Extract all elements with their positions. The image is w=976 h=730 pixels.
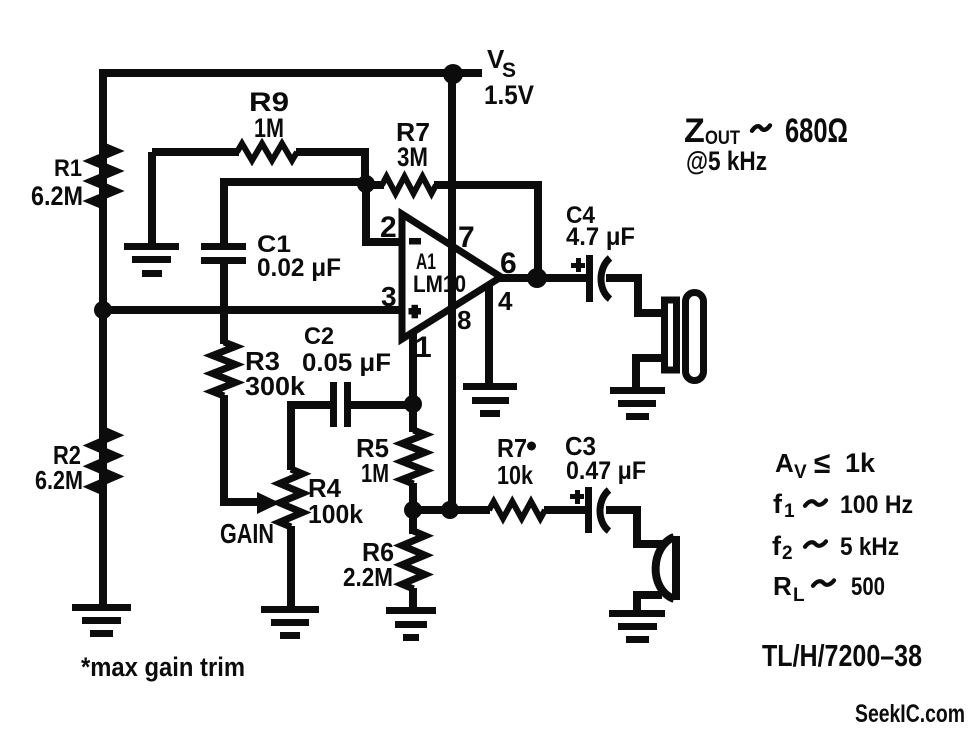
svg-text:@5 kHz: @5 kHz xyxy=(686,146,767,176)
svg-text:6.2M: 6.2M xyxy=(31,181,83,211)
svg-text:L: L xyxy=(793,585,805,606)
op-amp plus sign xyxy=(409,305,422,319)
node VS junction xyxy=(443,64,463,84)
node output junction xyxy=(527,268,547,288)
wire C2 left xyxy=(291,401,332,409)
wire left rail xyxy=(99,69,107,606)
resistor R7star xyxy=(489,502,545,519)
wire C2 right xyxy=(351,401,413,409)
C4 plus sign xyxy=(571,258,585,272)
node pin3 junction xyxy=(94,301,112,319)
svg-text:100 Hz: 100 Hz xyxy=(840,491,913,519)
wire R4 bottom xyxy=(287,526,295,608)
svg-text:2.2M: 2.2M xyxy=(343,562,393,592)
ground G1 xyxy=(72,604,131,637)
node R5R6 junction xyxy=(404,501,422,519)
svg-text:0.02 μF: 0.02 μF xyxy=(257,254,341,282)
wire pin3 xyxy=(103,306,403,314)
wire R7star right xyxy=(544,506,587,514)
svg-text:C2: C2 xyxy=(304,323,334,350)
capacitor C2 xyxy=(330,382,351,427)
ground G5 xyxy=(386,607,436,641)
svg-text:1M: 1M xyxy=(361,458,389,488)
resistor R2 xyxy=(92,430,116,492)
potentiometer R4 xyxy=(280,469,303,527)
svg-text:4.7 μF: 4.7 μF xyxy=(566,223,635,251)
wire C2 bend xyxy=(287,401,295,470)
wire C3 to speaker xyxy=(606,510,664,544)
speaker LS2 xyxy=(656,536,676,600)
svg-text:0.47 μF: 0.47 μF xyxy=(566,457,646,485)
svg-text:0.05 μF: 0.05 μF xyxy=(302,349,391,377)
svg-text:SeekIC.com: SeekIC.com xyxy=(855,700,965,728)
wire to R7star xyxy=(413,506,490,514)
svg-text:1.5V: 1.5V xyxy=(484,80,534,110)
label RL spec xyxy=(773,571,885,606)
svg-text:5 kHz: 5 kHz xyxy=(840,533,899,561)
node pin8 junction xyxy=(441,501,459,519)
wire R5 top xyxy=(409,404,417,432)
op-amp A1 LM10 xyxy=(402,214,501,339)
svg-text:≤: ≤ xyxy=(814,447,830,480)
speaker LS1 xyxy=(665,293,704,381)
wire R5 R6 link xyxy=(409,483,417,534)
ground G3 xyxy=(463,383,517,417)
svg-text:f: f xyxy=(772,531,782,561)
wire pin1 xyxy=(409,333,417,408)
svg-text:3: 3 xyxy=(381,281,397,312)
svg-text:680Ω: 680Ω xyxy=(785,112,848,150)
wire output xyxy=(499,274,587,282)
svg-text:1: 1 xyxy=(784,501,795,522)
wire C4 to speaker xyxy=(606,278,665,313)
wire pin7-pin8 vertical xyxy=(448,73,456,509)
capacitor C3 plate xyxy=(585,487,592,533)
op-amp minus sign xyxy=(409,238,421,245)
capacitor C4 plate xyxy=(586,255,593,302)
svg-text:1k: 1k xyxy=(845,448,876,478)
wire to C1 top xyxy=(224,182,366,246)
svg-text:*max gain trim: *max gain trim xyxy=(81,652,245,682)
svg-text:300k: 300k xyxy=(245,371,306,401)
svg-text:f: f xyxy=(773,489,783,519)
node feedback junction xyxy=(357,175,375,193)
svg-text:2: 2 xyxy=(782,543,793,564)
wire pin2 stub xyxy=(366,184,403,242)
svg-text:500: 500 xyxy=(851,573,885,601)
ground G6 xyxy=(609,610,665,643)
C3 plus sign xyxy=(570,490,584,504)
wire C1 bottom xyxy=(220,262,228,344)
wire R9 ground stem xyxy=(148,152,156,246)
label R7star asterisk xyxy=(527,442,536,451)
svg-text:A: A xyxy=(775,448,794,478)
wire speaker1 bottom xyxy=(636,358,664,387)
resistor R3 xyxy=(213,342,236,396)
wire pin4 xyxy=(485,283,493,388)
resistor R7 xyxy=(382,177,436,194)
svg-text:100k: 100k xyxy=(308,499,364,529)
svg-text:Z: Z xyxy=(684,112,705,150)
capacitor C1 xyxy=(201,243,246,264)
label Av spec xyxy=(775,447,876,483)
svg-text:LM10: LM10 xyxy=(413,271,466,298)
node C2 junction xyxy=(404,395,422,413)
svg-text:GAIN: GAIN xyxy=(220,518,274,549)
ground G4 xyxy=(261,606,319,639)
svg-text:R: R xyxy=(773,571,792,601)
wire R9 left xyxy=(152,148,239,156)
svg-text:R1: R1 xyxy=(54,155,82,182)
wire R6 bottom xyxy=(409,588,417,610)
svg-text:4: 4 xyxy=(498,286,513,316)
wire R9 right xyxy=(296,152,365,184)
svg-text:1: 1 xyxy=(415,331,432,364)
wire R7 left xyxy=(366,181,384,189)
svg-text:10k: 10k xyxy=(497,460,533,490)
svg-text:7: 7 xyxy=(458,221,475,254)
resistor R6 xyxy=(402,531,425,589)
svg-text:2: 2 xyxy=(380,211,397,244)
svg-text:1M: 1M xyxy=(254,113,284,143)
wire speaker2 bottom xyxy=(637,595,662,614)
wire R3 bottom xyxy=(224,395,264,502)
svg-text:V: V xyxy=(794,462,807,483)
svg-text:3M: 3M xyxy=(397,142,428,172)
label f1 spec xyxy=(773,489,913,522)
ground G2 xyxy=(124,243,179,277)
svg-text:R7: R7 xyxy=(497,433,527,463)
resistor R5 xyxy=(402,430,425,484)
svg-text:6.2M: 6.2M xyxy=(35,465,83,495)
wire R7 right xyxy=(434,185,538,276)
svg-text:TL/H/7200–38: TL/H/7200–38 xyxy=(762,638,922,673)
capacitor C3 curved plate xyxy=(600,490,609,531)
resistor R9 xyxy=(237,144,297,161)
svg-text:8: 8 xyxy=(457,305,471,335)
label f2 spec xyxy=(772,531,899,564)
gain trim arrow xyxy=(257,492,280,514)
label Zout tilde xyxy=(752,125,770,130)
ground G7 xyxy=(610,387,665,420)
capacitor C4 curved plate xyxy=(601,258,610,299)
resistor R1 xyxy=(92,146,116,206)
svg-text:S: S xyxy=(502,59,516,82)
wire top supply rail xyxy=(103,69,482,77)
